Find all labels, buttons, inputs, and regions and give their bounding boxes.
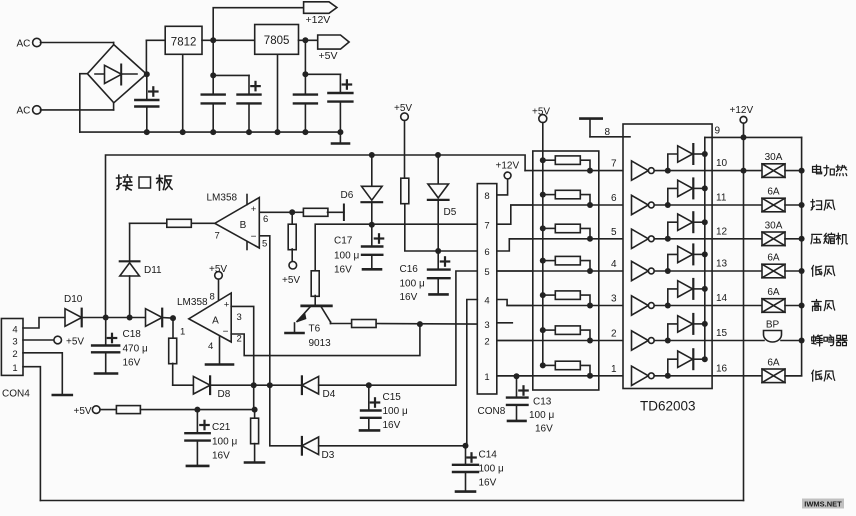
node: [289, 209, 295, 215]
resistor R-b3: [167, 219, 192, 227]
node: [741, 134, 747, 140]
wire: [253, 385, 255, 409]
wire: [437, 200, 439, 251]
svg-text:−: −: [223, 327, 229, 338]
svg-text:+5V: +5V: [282, 275, 300, 286]
svg-text:30A: 30A: [765, 220, 783, 231]
svg-text:+12V: +12V: [730, 105, 754, 116]
inverter channel 1: [632, 161, 649, 180]
node: [463, 443, 469, 449]
resistor network box: [533, 151, 599, 390]
node: [799, 236, 805, 242]
svg-text:1: 1: [484, 372, 489, 383]
svg-text:CON8: CON8: [478, 406, 506, 417]
wire pin7 line: [315, 224, 477, 272]
node: [252, 407, 258, 413]
svg-text:C21: C21: [212, 422, 231, 433]
resistor R-t1: [311, 271, 319, 297]
wire CON8 pin4 step: [497, 300, 533, 306]
inverter channel 2: [632, 195, 649, 214]
wire diode common rail: [704, 137, 706, 359]
resistor R-b1: [303, 208, 328, 216]
node +5V terminal: [289, 261, 297, 269]
node: [741, 168, 747, 174]
buzzer BP: [712, 340, 764, 342]
inverter channel 5: [632, 296, 649, 315]
fuse 30A row 12: [712, 238, 762, 240]
resistor R-c2: [254, 410, 256, 419]
svg-text:C15: C15: [383, 392, 402, 403]
wire 7805 ground leg: [277, 54, 279, 132]
wire: [319, 445, 466, 447]
node +12V output flag: [304, 2, 337, 14]
diode D4: [301, 376, 303, 394]
svg-text:6: 6: [484, 247, 489, 258]
node: [435, 152, 441, 158]
capacitor filter C-d: [294, 93, 317, 95]
node: [514, 373, 520, 379]
svg-text:+: +: [251, 204, 257, 215]
load label row 13: [812, 265, 822, 276]
fuse 6A row 13: [712, 270, 762, 272]
resistor RN3: [540, 225, 546, 231]
pin 3 wire: [231, 306, 254, 385]
wire: [254, 384, 270, 386]
node: [799, 168, 805, 174]
svg-text:+5V: +5V: [319, 50, 338, 62]
wire row line: [507, 305, 631, 307]
node: [210, 72, 216, 78]
clamp diode channel 2: [668, 188, 678, 205]
resistor R-b2: [291, 212, 293, 225]
wire row line: [497, 340, 632, 342]
capacitor C18: [105, 318, 107, 346]
regulator 7805: [255, 25, 299, 55]
wire row line: [525, 170, 631, 172]
wire pin5 feedback: [259, 236, 270, 385]
load label row 14: [812, 300, 821, 312]
regulator 7812: [165, 26, 202, 54]
wire +5V feed: [542, 123, 544, 366]
node: [799, 303, 805, 309]
svg-text:4: 4: [611, 259, 617, 270]
wire CON8 pin5: [497, 270, 533, 272]
wire: [80, 74, 88, 132]
svg-text:D4: D4: [323, 389, 336, 400]
wire: [319, 384, 369, 386]
svg-text:D8: D8: [218, 389, 231, 400]
capacitor filter C-a: [146, 74, 148, 100]
svg-text:16V: 16V: [383, 420, 401, 431]
svg-text:+5V: +5V: [74, 406, 92, 417]
diode D11: [120, 260, 140, 262]
node: [417, 321, 423, 327]
svg-text:100 μ: 100 μ: [479, 464, 504, 475]
wire pin4 ground: [219, 337, 221, 365]
svg-text:−: −: [251, 232, 257, 243]
wire: [173, 384, 194, 386]
svg-text:100 μ: 100 μ: [529, 410, 554, 421]
load label row 16: [812, 370, 822, 381]
svg-text:7: 7: [484, 220, 489, 231]
svg-text:2: 2: [12, 349, 17, 360]
bridge rectifier: [87, 45, 146, 103]
svg-text:470 μ: 470 μ: [123, 344, 148, 355]
wire: [299, 39, 318, 41]
resistor RN1: [540, 157, 546, 163]
diode D6: [371, 155, 373, 186]
capacitor filter C-b: [202, 93, 225, 95]
svg-text:5: 5: [611, 227, 617, 238]
svg-text:1: 1: [12, 363, 17, 374]
svg-text:10: 10: [716, 158, 728, 169]
svg-text:2: 2: [484, 337, 489, 348]
svg-text:D6: D6: [341, 190, 354, 201]
svg-text:2: 2: [611, 329, 617, 340]
svg-text:6A: 6A: [767, 287, 780, 298]
wire pin9 line: [705, 136, 802, 138]
wire: [212, 40, 214, 94]
svg-text:C13: C13: [533, 397, 552, 408]
fuse 6A row 16: [712, 375, 762, 377]
fuse 30A row 10: [712, 170, 762, 172]
svg-text:8: 8: [210, 292, 215, 303]
wire CON8 pin8 +12V: [497, 179, 508, 195]
svg-text:7: 7: [611, 159, 617, 170]
wire bottom rail: [40, 500, 743, 502]
resistor R-c1: [116, 406, 140, 414]
svg-text:6: 6: [611, 193, 617, 204]
wire: [259, 211, 292, 213]
wire CON8 pin3 stub: [497, 322, 513, 324]
wire row line: [497, 375, 632, 377]
svg-text:D5: D5: [444, 207, 457, 218]
clamp diode channel 6: [668, 324, 678, 341]
svg-text:16V: 16V: [212, 451, 230, 462]
wire CON4 pin3 +5V: [23, 339, 54, 341]
node: [799, 338, 805, 344]
svg-text:2: 2: [237, 334, 242, 345]
wire: [106, 317, 130, 319]
load label row 10: [813, 165, 822, 174]
wire: [305, 73, 340, 75]
svg-text:7805: 7805: [264, 35, 290, 47]
wire CON8 pin1: [497, 375, 533, 377]
node: [435, 248, 441, 254]
svg-text:CON4: CON4: [2, 389, 30, 400]
svg-text:+12V: +12V: [496, 161, 520, 172]
fuse 6A row 11: [712, 204, 762, 206]
svg-text:+: +: [224, 300, 230, 311]
svg-text:14: 14: [716, 293, 728, 304]
svg-text:7812: 7812: [171, 37, 197, 49]
wire row line: [511, 204, 632, 206]
wire: [404, 121, 406, 179]
wire stub with end bar: [328, 211, 344, 213]
wire CON4 pin1: [23, 367, 40, 501]
wire CON4 pin2 ground: [23, 353, 62, 395]
wire interface board top rail: [106, 155, 526, 318]
svg-text:100 μ: 100 μ: [212, 437, 237, 448]
capacitor C13: [516, 376, 518, 397]
svg-text:12: 12: [716, 226, 728, 237]
svg-text:16V: 16V: [535, 424, 553, 435]
resistor R-d1: [401, 178, 409, 204]
wire right common rail: [785, 137, 802, 375]
svg-text:1: 1: [180, 327, 185, 338]
node: [799, 268, 805, 274]
wire row line: [497, 270, 632, 272]
svg-text:4: 4: [484, 296, 489, 307]
wire: [270, 385, 302, 446]
node: [127, 315, 133, 321]
resistor R-a1: [172, 318, 174, 339]
capacitor C15: [368, 385, 370, 410]
wire row line: [509, 238, 631, 240]
resistor RN4: [540, 258, 546, 264]
svg-text:TD62003: TD62003: [640, 399, 696, 414]
svg-text:IWMS.NET: IWMS.NET: [804, 500, 842, 509]
svg-text:C18: C18: [123, 329, 142, 340]
wire +12V branch: [213, 8, 303, 41]
diode D10: [65, 309, 82, 327]
svg-text:BP: BP: [766, 320, 780, 331]
svg-text:T6: T6: [309, 324, 321, 335]
node: [366, 382, 372, 388]
wire: [130, 222, 166, 224]
node: [144, 129, 150, 135]
svg-text:6A: 6A: [767, 187, 780, 198]
wire: [140, 409, 254, 411]
svg-text:15: 15: [716, 328, 728, 339]
svg-text:4: 4: [12, 324, 17, 335]
wire: [100, 409, 117, 411]
svg-text:A: A: [212, 316, 219, 327]
resistor RN5: [540, 292, 546, 298]
load label row 12: [811, 234, 822, 243]
node: [103, 315, 109, 321]
node bridge output junction: [144, 71, 150, 77]
capacitor filter C-e: [339, 74, 341, 93]
wire: [304, 40, 306, 94]
clamp diode channel 5: [668, 289, 678, 306]
wire +12V vertical rail: [743, 137, 745, 500]
clamp diode channel 7: [668, 359, 678, 376]
clamp diode channel 3: [668, 222, 678, 239]
svg-text:+5V: +5V: [66, 337, 84, 348]
node: [251, 382, 257, 388]
svg-text:3: 3: [237, 312, 242, 323]
node: [369, 152, 375, 158]
node: [799, 202, 805, 208]
transistor T6 9013: [302, 304, 332, 307]
diode D5: [437, 155, 439, 184]
capacitor filter C-c: [248, 75, 250, 94]
diode D8: [193, 376, 210, 394]
diode D3: [301, 437, 303, 455]
node +5V output flag: [318, 35, 349, 49]
watermark: [802, 499, 844, 509]
svg-text:6: 6: [263, 214, 268, 225]
wire CON8 pin6 step: [497, 239, 533, 251]
resistor RN2: [540, 192, 546, 198]
inverter channel 4: [632, 261, 649, 280]
svg-text:100 μ: 100 μ: [400, 279, 425, 290]
driver IC TD62003 box: [623, 124, 712, 389]
resistor RN7: [540, 362, 546, 368]
clamp diode channel 4: [668, 254, 678, 271]
svg-text:16V: 16V: [334, 265, 352, 276]
svg-text:+5V: +5V: [209, 264, 227, 275]
svg-text:3: 3: [611, 294, 617, 305]
wire pin7 output: [192, 222, 215, 224]
wire pin8 +5V: [215, 272, 223, 280]
svg-text:3: 3: [484, 320, 489, 331]
wire CON8 pin2: [497, 340, 533, 342]
wire: [270, 384, 302, 386]
connector CON4: [1, 319, 23, 376]
svg-text:D11: D11: [144, 265, 162, 276]
wire: [213, 74, 249, 76]
svg-text:9013: 9013: [309, 338, 332, 349]
capacitor C16: [437, 251, 439, 270]
load label row 15: [812, 335, 823, 346]
node 7812 output: [210, 37, 216, 43]
svg-text:16: 16: [716, 363, 728, 374]
capacitor C14: [465, 446, 467, 465]
capacitor C17: [371, 225, 373, 247]
svg-text:30A: 30A: [765, 152, 783, 163]
wire: [202, 39, 255, 41]
svg-text:16V: 16V: [479, 478, 497, 489]
node 7805 output: [302, 37, 308, 43]
svg-text:8: 8: [605, 127, 611, 138]
wire 7812 ground leg: [182, 54, 184, 132]
wire: [41, 42, 114, 44]
connector CON8: [477, 184, 497, 394]
node: [170, 315, 176, 321]
svg-text:7: 7: [215, 231, 220, 242]
node board label 接口板: [116, 175, 132, 190]
resistor RN6: [540, 327, 546, 333]
ground pin8 symbol: [580, 117, 601, 120]
svg-text:9: 9: [715, 126, 721, 137]
wire CON8 pin4 left: [467, 300, 478, 446]
svg-text:C16: C16: [400, 264, 419, 275]
svg-text:8: 8: [484, 191, 489, 202]
svg-text:16V: 16V: [123, 358, 141, 369]
svg-text:AC: AC: [17, 39, 31, 50]
wire PSU ground rail: [80, 131, 341, 133]
svg-text:11: 11: [716, 193, 727, 204]
svg-text:13: 13: [716, 259, 728, 270]
wire CON8 pin7 step: [497, 205, 533, 224]
svg-text:100 μ: 100 μ: [334, 251, 359, 262]
inverter channel 6: [632, 331, 649, 350]
node: [194, 407, 200, 413]
wire: [129, 276, 131, 318]
op-amp U1B LM358: [215, 198, 259, 249]
ground: [339, 132, 341, 143]
svg-text:+12V: +12V: [306, 14, 331, 26]
wire: [145, 40, 147, 74]
wire: [371, 202, 373, 225]
wire: [82, 317, 106, 319]
svg-text:6A: 6A: [767, 253, 780, 264]
op-amp U1A LM358: [189, 293, 231, 342]
pin 2 wire: [231, 324, 420, 356]
svg-text:D3: D3: [322, 450, 335, 461]
inverter channel 7: [632, 366, 649, 385]
svg-text:LM358: LM358: [177, 297, 208, 308]
wire: [130, 317, 146, 319]
svg-text:AC: AC: [17, 106, 31, 117]
wire: [41, 109, 114, 111]
svg-text:3: 3: [12, 337, 17, 348]
wire: [376, 323, 477, 326]
svg-text:1: 1: [611, 364, 617, 375]
svg-text:4: 4: [208, 341, 213, 352]
capacitor C21: [196, 410, 198, 434]
wire: [438, 250, 477, 252]
node: [369, 222, 375, 228]
node: [302, 71, 308, 77]
wire: [369, 271, 478, 385]
node: [267, 382, 273, 388]
svg-text:5: 5: [484, 267, 489, 278]
wire: [292, 211, 304, 213]
svg-text:B: B: [240, 220, 247, 231]
wire: [162, 317, 173, 320]
svg-text:D10: D10: [64, 294, 83, 305]
load label row 11: [811, 199, 822, 210]
wire: [210, 384, 254, 386]
svg-text:C14: C14: [479, 450, 498, 461]
diode D12: [146, 309, 163, 327]
wire CON4 pin4: [23, 318, 65, 329]
svg-text:16V: 16V: [400, 292, 418, 303]
wire: [330, 322, 332, 324]
clamp diode channel 1: [668, 154, 678, 171]
resistor R-t2: [352, 320, 377, 328]
svg-text:LM358: LM358: [207, 193, 238, 204]
svg-text:100 μ: 100 μ: [383, 406, 408, 417]
svg-text:6A: 6A: [767, 357, 780, 368]
svg-text:5: 5: [262, 239, 267, 250]
svg-text:C17: C17: [334, 236, 353, 247]
inverter channel 3: [632, 229, 649, 248]
fuse 6A row 14: [712, 305, 762, 307]
